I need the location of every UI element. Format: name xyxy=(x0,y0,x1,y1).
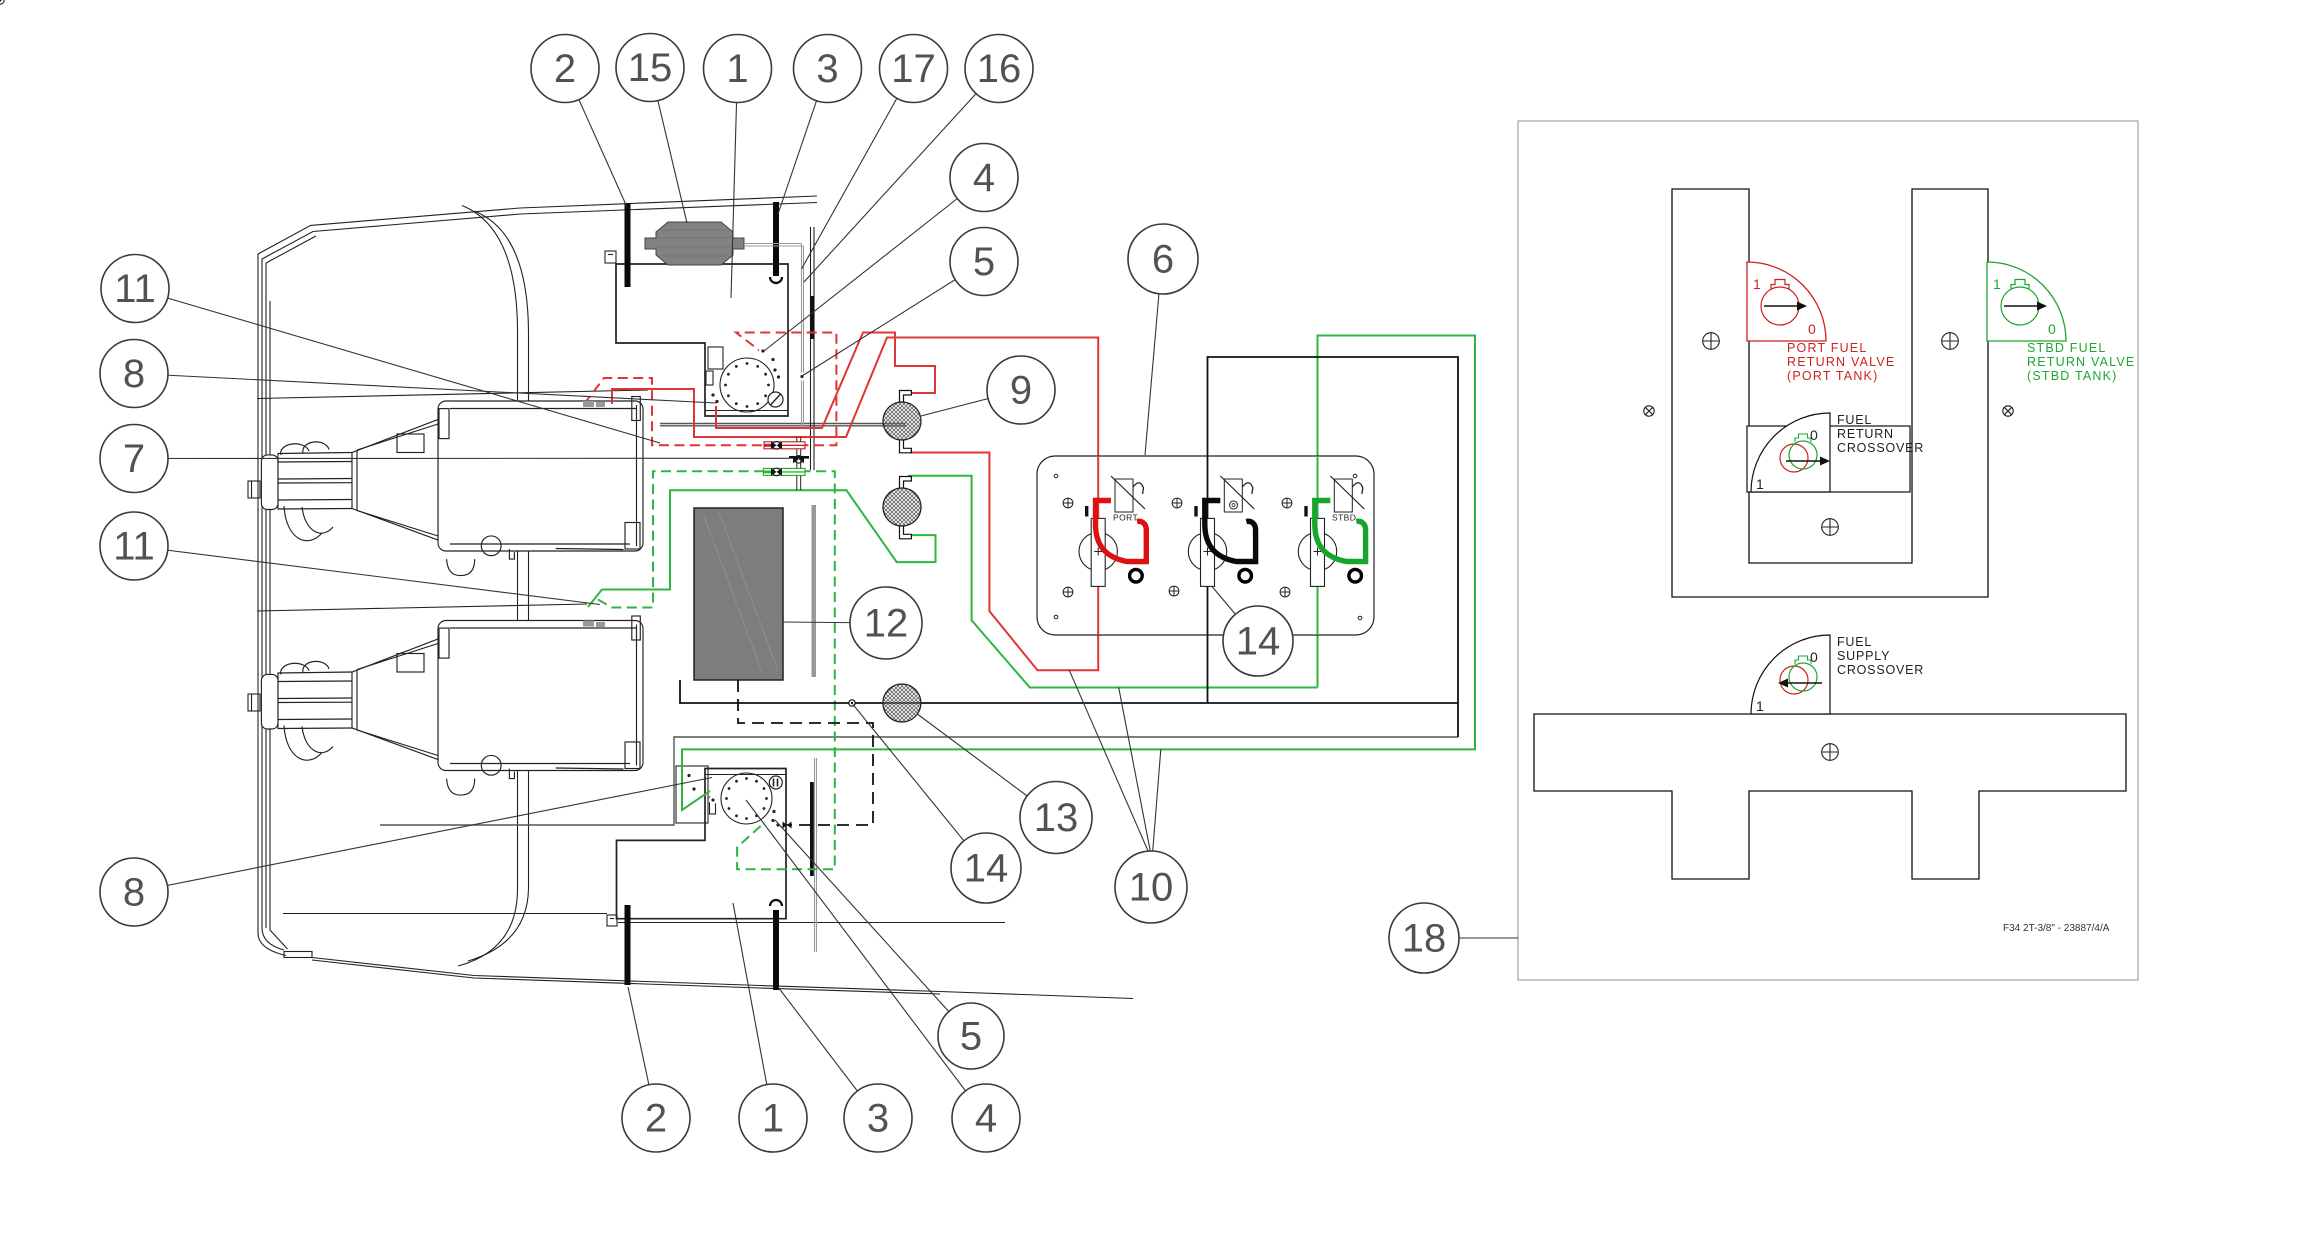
svg-text:0: 0 xyxy=(2048,321,2056,337)
svg-text:CROSSOVER: CROSSOVER xyxy=(1837,441,1924,455)
svg-text:7: 7 xyxy=(123,437,145,481)
svg-text:11: 11 xyxy=(113,525,155,569)
svg-text:PORT FUEL: PORT FUEL xyxy=(1787,341,1868,355)
svg-text:RETURN: RETURN xyxy=(1837,427,1894,441)
svg-text:5: 5 xyxy=(973,240,995,284)
svg-text:PORT: PORT xyxy=(1113,513,1138,523)
svg-text:RETURN VALVE: RETURN VALVE xyxy=(1787,355,1895,369)
svg-text:8: 8 xyxy=(123,352,145,396)
svg-text:14: 14 xyxy=(964,847,1009,891)
svg-text:9: 9 xyxy=(1010,369,1032,413)
svg-text:CROSSOVER: CROSSOVER xyxy=(1837,663,1924,677)
svg-text:1: 1 xyxy=(1993,276,2001,292)
svg-text:3: 3 xyxy=(816,47,838,91)
svg-text:3: 3 xyxy=(867,1097,889,1141)
svg-text:12: 12 xyxy=(864,602,909,646)
svg-text:1: 1 xyxy=(762,1097,784,1141)
svg-text:SUPPLY: SUPPLY xyxy=(1837,649,1890,663)
svg-text:5: 5 xyxy=(960,1015,982,1059)
svg-text:8: 8 xyxy=(123,871,145,915)
svg-text:2: 2 xyxy=(554,47,576,91)
svg-text:16: 16 xyxy=(977,47,1022,91)
svg-text:10: 10 xyxy=(1129,866,1174,910)
svg-text:0: 0 xyxy=(1810,427,1818,443)
svg-text:(PORT TANK): (PORT TANK) xyxy=(1787,369,1878,383)
svg-text:0: 0 xyxy=(1808,321,1816,337)
svg-text:4: 4 xyxy=(975,1097,997,1141)
svg-text:1: 1 xyxy=(1756,698,1764,714)
svg-text:15: 15 xyxy=(628,46,673,90)
svg-text:13: 13 xyxy=(1034,796,1079,840)
svg-text:1: 1 xyxy=(1753,276,1761,292)
svg-text:1: 1 xyxy=(1756,476,1764,492)
svg-text:14: 14 xyxy=(1236,620,1281,664)
svg-text:6: 6 xyxy=(1152,238,1174,282)
svg-text:11: 11 xyxy=(114,267,156,311)
svg-text:17: 17 xyxy=(891,47,936,91)
svg-text:FUEL: FUEL xyxy=(1837,635,1872,649)
svg-text:STBD FUEL: STBD FUEL xyxy=(2027,341,2107,355)
svg-text:F34 2T-3/8" - 23887/4/A: F34 2T-3/8" - 23887/4/A xyxy=(2003,923,2110,934)
svg-text:1: 1 xyxy=(726,47,748,91)
svg-text:0: 0 xyxy=(1810,649,1818,665)
svg-text:STBD: STBD xyxy=(1332,513,1356,523)
svg-text:4: 4 xyxy=(973,156,995,200)
svg-text:2: 2 xyxy=(645,1097,667,1141)
svg-text:FUEL: FUEL xyxy=(1837,413,1872,427)
svg-text:18: 18 xyxy=(1402,917,1447,961)
svg-text:RETURN VALVE: RETURN VALVE xyxy=(2027,355,2135,369)
svg-text:(STBD TANK): (STBD TANK) xyxy=(2027,369,2118,383)
